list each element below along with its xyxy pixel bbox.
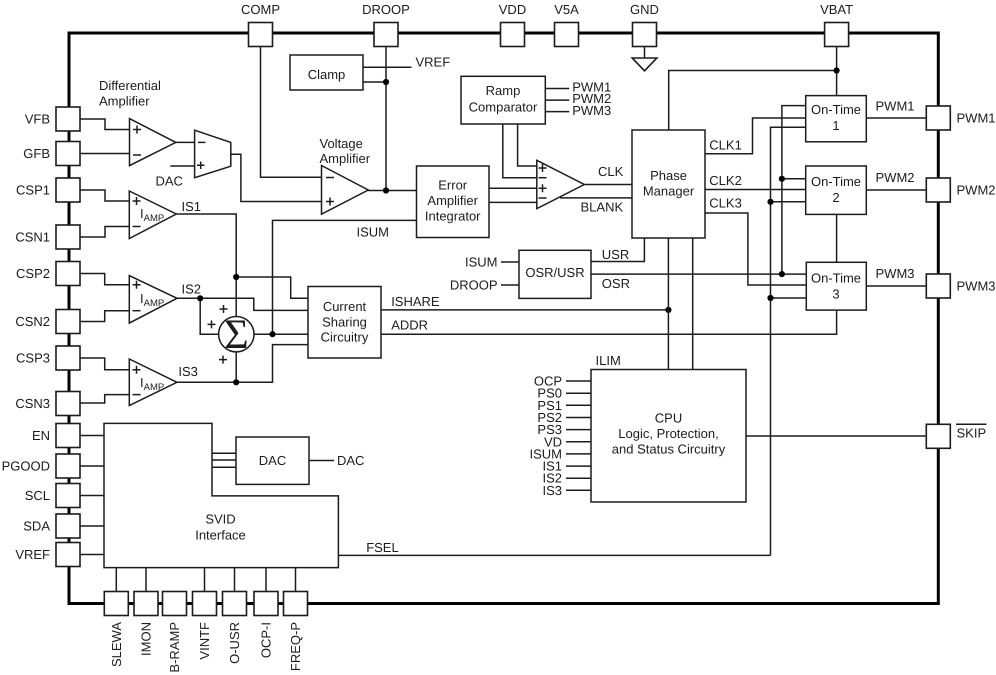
clamp block (290, 55, 363, 90)
svg-text:PWM3: PWM3 (876, 266, 915, 281)
wire CLK1 phase manager to on-time 1 (705, 118, 806, 154)
pin CSP1 (16, 178, 80, 202)
svg-text:DROOP: DROOP (450, 278, 498, 293)
on-time 1 block (806, 96, 867, 142)
svg-text:On-Time: On-Time (811, 174, 861, 189)
chip outer border (69, 33, 938, 604)
svg-text:FREQ-P: FREQ-P (288, 622, 303, 671)
wire SVID to OCP-I (265, 568, 267, 592)
svg-text:IS2: IS2 (182, 282, 202, 297)
svg-text:VDD: VDD (499, 2, 526, 17)
svg-text:GND: GND (630, 2, 659, 17)
pin PWM2 (926, 178, 995, 202)
CPU input PS0 (537, 386, 591, 401)
junction DROOP/voltage amp output (383, 187, 389, 193)
svg-text:IS3: IS3 (178, 364, 198, 379)
pin FREQ-P (284, 592, 308, 672)
svg-text:V5A: V5A (554, 2, 579, 17)
svg-text:CPU: CPU (655, 411, 682, 426)
CPU input ISUM (530, 446, 592, 461)
svg-text:SDA: SDA (23, 519, 50, 534)
wire ramp comparator PWM1 feedback (545, 88, 569, 90)
svg-text:2: 2 (832, 190, 839, 205)
svg-text:Error: Error (438, 178, 468, 193)
wire SVID to DAC bus line 2 (212, 459, 236, 461)
wire error amp integrator lower output to comparator (489, 201, 537, 203)
wire SVID to IMON (145, 568, 147, 592)
svg-text:VFB: VFB (25, 112, 50, 127)
wire VBAT branch to phase manager top (669, 71, 837, 131)
svg-text:PWM3: PWM3 (957, 279, 996, 294)
wire OSR to on-time blocks (591, 273, 806, 275)
wire SCL to SVID interface (80, 495, 104, 497)
wire CLK comparator output to phase manager (584, 184, 632, 186)
pin DROOP (362, 2, 410, 47)
junction IS1 branch (233, 274, 239, 280)
wire CSN2 to current sense amp 2 (80, 311, 129, 322)
wire EN to SVID interface (80, 435, 104, 437)
svg-text:Differential: Differential (99, 78, 161, 93)
wire sigma output to current sharing circuitry (254, 333, 308, 335)
op-amp current sense amplifier 2 (129, 276, 177, 324)
svg-text:DAC: DAC (259, 453, 286, 468)
pin PWM1 (926, 106, 995, 130)
svg-text:CSP3: CSP3 (16, 351, 50, 366)
pin SLEWA (104, 592, 128, 668)
svg-text:PWM1: PWM1 (876, 98, 915, 113)
OSR/USR block (519, 250, 591, 298)
svg-text:3: 3 (832, 287, 839, 302)
pin V5A (554, 2, 579, 47)
wire FSEL branch to on-time 2 (771, 201, 806, 203)
wire on-time 1 output to PWM1 pin (866, 117, 926, 119)
pin PGOOD (2, 454, 80, 478)
op-amp current sense amplifier 1 (129, 191, 176, 239)
svg-text:PWM1: PWM1 (957, 111, 996, 126)
svg-text:SVID: SVID (205, 512, 235, 527)
pin CSP3 (16, 346, 80, 370)
svg-text:1: 1 (832, 118, 839, 133)
CPU input PS3 (537, 422, 591, 437)
wire IS2 to current sharing circuitry (177, 298, 308, 310)
wire sigma bottom input from IS3 (235, 352, 237, 382)
pin EN (32, 424, 80, 448)
label Voltage Amplifier (320, 136, 371, 166)
wire COMP to voltage amplifier - input (261, 47, 322, 178)
wire phase manager to CPU riser 1 (ILIM) (667, 238, 669, 370)
svg-text:Voltage: Voltage (320, 136, 363, 151)
pin GFB (23, 142, 80, 166)
wire USR to phase manager (591, 238, 644, 262)
svg-text:Logic, Protection,: Logic, Protection, (618, 426, 718, 441)
CPU input PS2 (537, 410, 591, 425)
wire DROOP input to OSR/USR (501, 284, 519, 286)
svg-text:Phase: Phase (650, 168, 687, 183)
pin VBAT (820, 2, 853, 47)
on-time 2 block (806, 166, 867, 214)
svg-text:VINTF: VINTF (197, 622, 212, 660)
svg-text:and Status Circuitry: and Status Circuitry (612, 442, 726, 457)
wire VREF to SVID interface (80, 554, 104, 556)
svg-text:IS1: IS1 (182, 199, 202, 214)
wire CSP1 to current sense amp 1 (80, 190, 129, 201)
wire ramp comparator output 1 to pwm comparator (503, 124, 537, 178)
wire SDA to SVID interface (80, 525, 104, 527)
CPU input IS2 (542, 471, 591, 486)
junction VBAT branch (834, 67, 840, 73)
wire ADDR to on-time 3 (381, 310, 837, 334)
pin CSN2 (15, 310, 80, 334)
svg-text:DAC: DAC (337, 453, 364, 468)
on-time 3 block (806, 262, 866, 310)
wire OSR branch to on-time 2 (782, 178, 806, 180)
svg-text:Current: Current (323, 299, 367, 314)
svg-text:DAC: DAC (156, 174, 183, 189)
pin VINTF (193, 592, 217, 660)
svg-text:CLK: CLK (598, 164, 624, 179)
wire IS2 branch down to sigma (200, 298, 219, 334)
wire SVID to VINTF (204, 568, 206, 592)
wire SVID to SLEWA (115, 568, 117, 592)
pin B-RAMP (163, 592, 187, 673)
ramp comparator block (461, 76, 545, 124)
wire VBAT down to on-time 1 (836, 47, 838, 96)
svg-text:DROOP: DROOP (362, 2, 410, 17)
svg-text:PGOOD: PGOOD (2, 459, 50, 474)
comparator (PWM latch comparator) (537, 160, 585, 208)
label Differential Amplifier (99, 78, 161, 109)
svg-text:SCL: SCL (25, 488, 50, 503)
wire FSEL riser to on-time 1 (771, 127, 806, 555)
junction FSEL riser at on-time 3 (767, 295, 773, 301)
svg-text:On-Time: On-Time (811, 271, 861, 286)
DAC trapezoid (error amp input stage) (195, 130, 231, 178)
svg-text:OSR/USR: OSR/USR (525, 265, 584, 280)
pin SKIP (active low) (926, 424, 986, 448)
svg-text:Integrator: Integrator (425, 209, 481, 224)
CPU input IS1 (542, 459, 591, 474)
CPU input IS3 (542, 483, 591, 498)
svg-text:On-Time: On-Time (811, 102, 861, 117)
svg-text:USR: USR (602, 247, 629, 262)
wire DAC input (170, 165, 194, 167)
pin OCP-I (254, 592, 278, 659)
svg-text:CLK2: CLK2 (709, 173, 742, 188)
wire CSP2 to current sense amp 2 (80, 274, 129, 285)
svg-text:OSR: OSR (602, 276, 630, 291)
svg-text:OCP-I: OCP-I (259, 622, 274, 658)
wire FSEL from SVID to riser (338, 554, 770, 556)
svg-text:ISHARE: ISHARE (391, 294, 440, 309)
svg-text:BLANK: BLANK (581, 200, 624, 215)
wire DAC output (309, 460, 334, 462)
svg-text:SLEWA: SLEWA (109, 622, 124, 667)
svg-text:SKIP: SKIP (957, 426, 987, 441)
op-amp differential amplifier (130, 119, 176, 166)
svg-text:O-USR: O-USR (227, 622, 242, 664)
pin PWM3 (926, 274, 995, 298)
svg-text:VBAT: VBAT (820, 2, 853, 17)
svg-text:Comparator: Comparator (469, 100, 538, 115)
svg-text:IMON: IMON (139, 622, 154, 656)
svg-text:Amplifier: Amplifier (320, 151, 371, 166)
svg-text:FSEL: FSEL (366, 540, 399, 555)
svg-text:IS3: IS3 (542, 483, 562, 498)
pin GND (630, 2, 659, 47)
svg-text:CSN2: CSN2 (15, 314, 50, 329)
wire phase manager to CPU riser 2 (692, 238, 694, 370)
svg-text:Sharing: Sharing (322, 314, 367, 329)
svg-text:Σ: Σ (224, 312, 248, 358)
svg-text:PWM2: PWM2 (876, 170, 915, 185)
pin CSP2 (16, 262, 80, 286)
wire error amp integrator output to comparator (489, 187, 537, 189)
wire VFB to diff amp (80, 119, 130, 130)
svg-text:ISUM: ISUM (357, 225, 390, 240)
junction IS2 branch (197, 295, 203, 301)
wire ramp comparator output 2 to pwm comparator (518, 124, 537, 166)
svg-text:ADDR: ADDR (391, 318, 428, 333)
wire CLK3 phase manager to on-time 3 (705, 213, 806, 285)
junction ISHARE/ILIM riser (665, 307, 671, 313)
wire diff amp out to DAC trapezoid (176, 141, 195, 143)
CPU input OCP (534, 374, 591, 389)
svg-text:VREF: VREF (15, 547, 50, 562)
junction OSR riser at on-time 2 (779, 176, 785, 182)
svg-text:COMP: COMP (241, 2, 280, 17)
CPU input VD (544, 434, 591, 449)
wire clamp to DROOP node (363, 81, 386, 83)
svg-text:GFB: GFB (23, 146, 50, 161)
wire CSN3 to current sense amp 3 (80, 395, 129, 403)
junction IS3/sigma (233, 379, 239, 385)
DAC block (236, 437, 309, 484)
wire on-time 2 output to PWM2 pin (866, 189, 926, 191)
svg-text:Interface: Interface (195, 528, 246, 543)
svg-text:PWM3: PWM3 (572, 103, 611, 118)
svg-text:B-RAMP: B-RAMP (167, 622, 182, 673)
ground symbol (632, 47, 657, 71)
pin IMON (134, 592, 158, 656)
wire ramp comparator PWM3 feedback (545, 111, 569, 113)
wire SVID to O-USR (234, 568, 236, 592)
current sharing circuitry block (308, 287, 381, 359)
wire ISHARE to CPU riser (381, 309, 668, 311)
svg-text:Ramp: Ramp (486, 83, 521, 98)
svg-text:CSP2: CSP2 (16, 266, 50, 281)
wire IS3 to current sharing circuitry (177, 345, 308, 383)
svg-text:ILIM: ILIM (596, 353, 621, 368)
svg-text:Amplifier: Amplifier (427, 193, 478, 208)
pin SDA (23, 514, 80, 538)
svg-text:EN: EN (32, 428, 50, 443)
wire OSR vertical riser to on-time 1 and 2 (782, 106, 806, 275)
svg-text:Clamp: Clamp (308, 67, 346, 82)
wire SVID to DAC bus line 3 (212, 466, 236, 468)
op-amp voltage amplifier (322, 166, 369, 215)
svg-text:CLK3: CLK3 (709, 196, 742, 211)
SVID interface block (L-shape) (104, 423, 338, 567)
wire CLK2 phase manager to on-time 2 (705, 189, 806, 191)
svg-text:Manager: Manager (643, 184, 695, 199)
svg-text:Amplifier: Amplifier (99, 94, 150, 109)
svg-text:CSN1: CSN1 (15, 230, 50, 245)
svg-text:CSP1: CSP1 (16, 183, 50, 198)
wire clamp to VREF (363, 66, 412, 68)
pin VREF (15, 543, 80, 567)
phase manager block (632, 130, 705, 238)
wire PGOOD to SVID interface (80, 465, 104, 467)
wire SVID to DAC bus line 1 (212, 452, 236, 454)
pin O-USR (223, 592, 247, 664)
pin CSN3 (15, 392, 80, 416)
op-amp current sense amplifier 3 (129, 359, 177, 406)
junction FSEL riser at on-time 2 (767, 199, 773, 205)
pin VDD (499, 2, 526, 47)
wire CSP3 to current sense amp 3 (80, 358, 129, 370)
pin COMP (241, 2, 280, 47)
svg-text:PWM2: PWM2 (957, 183, 996, 198)
error amplifier integrator block (417, 166, 490, 238)
CPU input PS1 (537, 398, 591, 413)
wire CPU to SKIP pin (746, 435, 926, 437)
CPU logic block (591, 370, 746, 503)
wire SVID to FREQ-P (295, 568, 297, 592)
wire FSEL branch to on-time 3 (771, 297, 807, 299)
wire ISUM input to OSR/USR (501, 261, 519, 263)
pin VFB (25, 107, 80, 131)
wire GFB to diff amp (80, 153, 130, 155)
junction clamp/DROOP (383, 79, 389, 85)
wire BLANK phase manager to comparator (560, 197, 632, 199)
wire IS1 to sigma and current sharing (176, 214, 236, 317)
svg-text:VREF: VREF (416, 55, 451, 70)
wire ramp comparator PWM2 feedback (545, 99, 569, 101)
svg-text:ISUM: ISUM (465, 255, 498, 270)
pin SCL (25, 484, 80, 508)
summer sigma (208, 305, 255, 364)
wire on-time 3 output to PWM3 pin (866, 285, 926, 287)
wire DAC trapezoid output to voltage amplifier + input (231, 154, 322, 201)
svg-text:CLK1: CLK1 (709, 137, 742, 152)
svg-text:CSN3: CSN3 (15, 396, 50, 411)
wire on-time 2 to on-time 3 link (836, 214, 838, 262)
wire voltage amp output to error amp integrator (368, 190, 416, 192)
wire IS1 branch into current sharing circuitry (236, 277, 308, 298)
junction OSR riser at OSR line (779, 271, 785, 277)
junction ISUM tap on sigma output (269, 331, 275, 337)
wire ISUM into error amp integrator (273, 220, 417, 334)
svg-text:Circuitry: Circuitry (321, 330, 369, 345)
pin CSN1 (15, 225, 80, 249)
wire CSN1 to current sense amp 1 (80, 227, 129, 238)
wire DROOP down to voltage amp output (385, 47, 387, 191)
